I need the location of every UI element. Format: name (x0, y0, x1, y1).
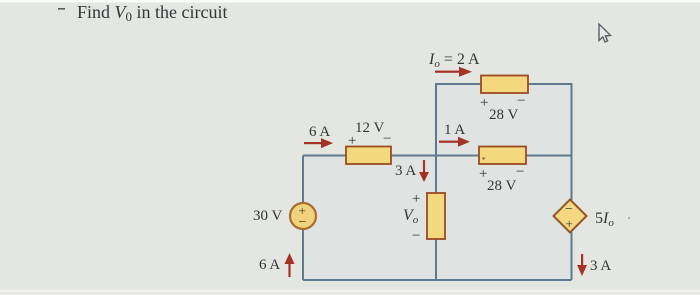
wire: right branch upper (middle wire to diamond) (571, 156, 573, 201)
wire: bottom horizontal (303, 279, 572, 281)
resistor R3 (12 V) (346, 147, 391, 165)
svg-text:30 V: 30 V (253, 208, 282, 224)
wire: center branch upper (middle wire to V0 resistor) (435, 156, 437, 194)
current arrow 1 A (439, 137, 470, 147)
dependent source 5Io (diamond) (554, 200, 587, 233)
wire: middle horizontal right (526, 155, 572, 157)
svg-text:1 A: 1 A (444, 122, 465, 138)
source V1 (30 V) (290, 203, 316, 229)
svg-text:3 A: 3 A (395, 163, 416, 179)
current arrow 6 A (bottom left, up) (285, 253, 295, 277)
svg-text:28 V: 28 V (489, 107, 518, 123)
svg-text:3 A: 3 A (590, 258, 611, 274)
svg-text:6 A: 6 A (259, 257, 280, 273)
speck right of 5Io (628, 217, 630, 219)
resistor R2 (middle right, 28 V) (479, 147, 526, 165)
speck inside middle resistor (482, 157, 484, 159)
svg-text:−: − (299, 215, 307, 230)
svg-text:6 A: 6 A (309, 124, 330, 140)
resistor R1 (top, 28 V) (481, 76, 528, 94)
svg-text:−: − (383, 131, 391, 147)
current arrow 3 A down (419, 160, 429, 182)
wire: left branch upper (to 30V source) (302, 156, 304, 204)
wire: top right segment (528, 84, 572, 156)
small dash mark (58, 8, 65, 10)
resistor R4 (vertical, V0) (427, 193, 445, 239)
svg-text:+: + (412, 191, 420, 207)
svg-text:−: − (412, 228, 420, 244)
wire: middle horizontal left (left node to 12V resistor) (303, 155, 346, 157)
wire: left branch lower (302, 229, 304, 280)
current arrow 3 A (bottom right, down) (577, 254, 587, 276)
svg-text:+: + (480, 95, 488, 111)
svg-text:Find V0 in the circuit: Find V0 in the circuit (77, 2, 227, 24)
wire: center branch lower (435, 239, 437, 280)
wire: right branch lower (571, 232, 573, 280)
current arrow 6 A (top left) (304, 138, 333, 148)
circuit interior tint (303, 84, 572, 280)
svg-text:+: + (348, 133, 356, 149)
svg-text:+: + (566, 216, 573, 231)
svg-text:12 V: 12 V (355, 120, 384, 136)
current arrow I_o (435, 67, 472, 77)
mouse cursor (599, 24, 611, 42)
svg-text:−: − (565, 202, 573, 217)
wire: top horizontal (node a to node b) (436, 84, 481, 156)
wire: middle horizontal center (391, 155, 479, 157)
svg-text:−: − (516, 164, 524, 180)
svg-text:28 V: 28 V (487, 178, 516, 194)
